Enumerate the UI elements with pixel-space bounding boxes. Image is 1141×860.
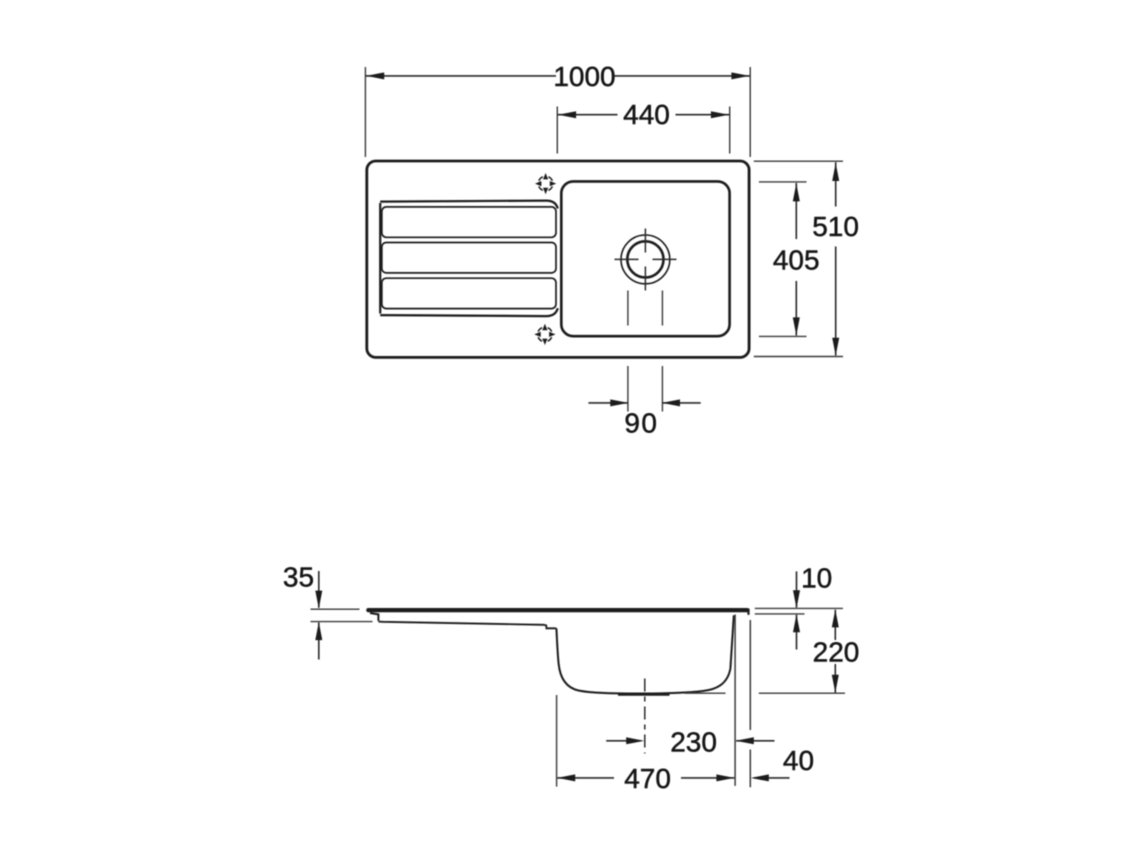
bowl centerline (dashed) (644, 679, 646, 754)
dimension 35 line (318, 571, 320, 660)
drainboard groove 2 (382, 243, 556, 273)
svg-text:90: 90 (624, 408, 658, 439)
sink edge extension line (749, 620, 751, 787)
side view rim right tick (747, 609, 749, 615)
dimension 470 arrows (557, 774, 734, 781)
svg-text:10: 10 (801, 563, 832, 594)
dimension 10 arrows (793, 590, 800, 632)
dimension 90 extension lines (628, 291, 663, 412)
dimension 10 extension lines (755, 608, 843, 614)
sink outer outline (top view) (367, 161, 749, 357)
svg-text:470: 470 (624, 763, 671, 794)
dimension 440 line (557, 114, 729, 116)
dimension 35 arrows (315, 591, 322, 641)
tap hole marker bottom (534, 324, 555, 345)
svg-text:220: 220 (813, 637, 860, 668)
drain inner circle (627, 241, 663, 277)
dimension 405 line (795, 183, 797, 336)
dimension 40 arrow and line (754, 777, 790, 779)
dimension 405 extension lines (759, 182, 807, 337)
bowl wall extension line (734, 615, 736, 786)
dimension 1000 line (365, 75, 750, 77)
dimension 440 arrows (558, 111, 729, 118)
side view rim (368, 608, 747, 612)
svg-text:40: 40 (783, 745, 814, 776)
drainboard contour (380, 201, 558, 317)
side view drain flange (618, 693, 670, 695)
svg-text:510: 510 (812, 211, 859, 242)
dimension 220 bottom extension line (685, 692, 846, 694)
svg-text:230: 230 (670, 726, 717, 757)
dimension 470 extension line (556, 695, 558, 787)
bowl outline (top view) (561, 181, 729, 336)
svg-text:35: 35 (283, 562, 314, 593)
dimension 220 arrows (832, 609, 839, 692)
dimension 510 line (835, 162, 837, 355)
dimension 440 extension lines (557, 107, 729, 154)
svg-text:1000: 1000 (553, 61, 615, 92)
dimension 10 line (796, 571, 798, 649)
side view drainboard underside (378, 622, 556, 629)
dimension 1000 arrows (366, 72, 749, 79)
side view bowl profile (556, 615, 733, 693)
drainboard groove 1 (382, 207, 556, 237)
svg-text:405: 405 (773, 245, 820, 276)
dimension 220 line (834, 610, 836, 693)
dimension 405 arrows (793, 183, 800, 335)
tap hole marker top (535, 173, 556, 194)
dimension 470 line (557, 777, 734, 779)
dimension 90 arrows (610, 399, 680, 406)
drainboard groove 3 (382, 278, 556, 308)
dimension 35 extension lines (311, 609, 373, 621)
drain centerlines (615, 229, 677, 291)
dimension 510 arrows (832, 163, 839, 356)
dimension 230 arrows and lines (606, 740, 774, 742)
drain outer circle (621, 235, 670, 284)
dimension 90 line (588, 402, 700, 404)
side view rim left step (370, 613, 378, 621)
dimension 1000 extension lines (365, 67, 750, 157)
dimension 510 extension lines (754, 161, 843, 356)
svg-text:440: 440 (623, 99, 670, 130)
